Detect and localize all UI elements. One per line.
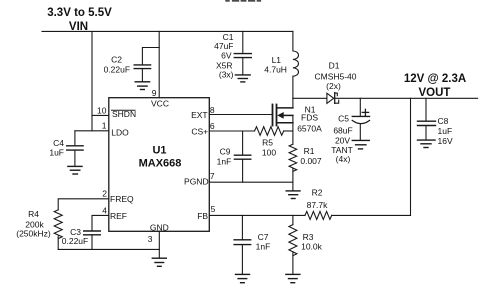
svg-text:68uF: 68uF <box>333 126 352 136</box>
transistor N1 mosfet <box>273 105 293 126</box>
wire bottom rail <box>58 248 159 250</box>
svg-text:2: 2 <box>102 188 107 198</box>
svg-text:L1: L1 <box>272 55 282 65</box>
ground PGND <box>286 191 300 199</box>
capacitor C8 wire top <box>425 98 427 121</box>
wire LDO to C4 <box>74 131 76 146</box>
svg-text:R4: R4 <box>28 209 39 219</box>
wire C1 vertical <box>242 31 244 53</box>
wire main output rail right <box>335 97 478 99</box>
wire LDO stub <box>75 130 109 132</box>
svg-text:C4: C4 <box>53 138 64 148</box>
svg-text:9: 9 <box>152 88 157 98</box>
svg-text:LDO: LDO <box>111 127 129 137</box>
svg-text:R1: R1 <box>304 146 315 156</box>
wire main output rail left <box>293 97 327 99</box>
svg-text:87.7k: 87.7k <box>307 200 329 210</box>
svg-text:R5: R5 <box>262 137 273 147</box>
capacitor C5 polarized <box>352 116 369 123</box>
svg-text:FREQ: FREQ <box>110 194 134 204</box>
resistor R5 <box>255 127 284 136</box>
svg-text:C8: C8 <box>438 116 449 126</box>
capacitor C2 <box>134 65 150 69</box>
wire R1 to PGND <box>292 168 294 182</box>
svg-text:3: 3 <box>148 234 153 244</box>
wire R3 to ground <box>292 252 294 274</box>
svg-text:PGND: PGND <box>184 176 209 186</box>
svg-text:R3: R3 <box>303 232 314 242</box>
wire C2 jog <box>142 48 159 66</box>
wire R2 to feedback vertical <box>332 214 411 216</box>
wire C8 to ground <box>425 126 427 140</box>
svg-text:100: 100 <box>262 147 276 157</box>
wire C7 to ground <box>241 245 243 275</box>
ground C2 <box>135 82 149 90</box>
svg-text:1nF: 1nF <box>256 242 271 252</box>
wire GND pin vertical <box>158 231 160 258</box>
svg-text:0.007: 0.007 <box>300 156 322 166</box>
clipped text at top edge <box>225 0 261 2</box>
svg-text:CS+: CS+ <box>191 126 208 136</box>
ground GND pin <box>152 258 166 266</box>
wire VCC vertical <box>158 31 160 97</box>
svg-text:0.22uF: 0.22uF <box>104 65 130 75</box>
wire mosfet drain vertical <box>292 98 294 108</box>
svg-text:1uF: 1uF <box>438 126 453 136</box>
wire mosfet source down to CS node and R1 <box>292 115 294 144</box>
svg-text:5: 5 <box>211 204 216 214</box>
ground C8 <box>418 140 436 147</box>
wire C3 to bottom rail <box>91 235 93 250</box>
svg-text:(3x): (3x) <box>219 70 234 80</box>
svg-text:(250kHz): (250kHz) <box>16 228 51 238</box>
wire R4 to bottom rail <box>57 236 59 249</box>
capacitor C3 <box>84 231 101 235</box>
ground C7 <box>236 274 250 282</box>
wire C5 to ground <box>359 124 361 141</box>
wire PGND lead <box>209 181 293 183</box>
svg-text:REF: REF <box>110 211 127 221</box>
svg-text:(2x): (2x) <box>326 81 341 91</box>
wire CS+ lead <box>209 130 254 132</box>
capacitor C1 <box>234 54 251 58</box>
inductor L1 <box>293 31 299 98</box>
svg-text:6: 6 <box>210 121 215 131</box>
capacitor C9 <box>234 155 250 159</box>
svg-text:12V @ 2.3A: 12V @ 2.3A <box>404 73 466 85</box>
wire VIN to SHDN/LDO vertical <box>91 31 93 130</box>
svg-text:1nF: 1nF <box>217 156 232 166</box>
svg-text:U1: U1 <box>152 144 166 156</box>
svg-text:1uF: 1uF <box>49 148 64 158</box>
capacitor C7 wire top <box>241 215 243 239</box>
wire FB lead <box>209 214 305 216</box>
resistor R4 <box>54 210 62 239</box>
svg-text:4: 4 <box>102 205 107 215</box>
wire EXT lead <box>209 114 272 116</box>
op IC U1 box <box>109 98 210 232</box>
resistor R2 <box>305 211 332 219</box>
wire C2 to ground <box>141 69 143 82</box>
resistor R3 <box>289 225 297 256</box>
svg-text:3.3V to 5.5V: 3.3V to 5.5V <box>47 7 112 19</box>
wire SHDN stub <box>92 114 109 116</box>
capacitor C7 <box>234 240 251 245</box>
wire FREQ lead <box>58 199 109 210</box>
svg-text:8: 8 <box>210 105 215 115</box>
ground C4 <box>68 166 82 174</box>
svg-text:0.22uF: 0.22uF <box>62 236 88 246</box>
capacitor C9 wire top <box>242 131 244 155</box>
svg-text:VCC: VCC <box>151 99 169 109</box>
svg-text:1: 1 <box>102 121 107 131</box>
diode D1 <box>327 93 339 104</box>
svg-text:7: 7 <box>210 171 215 181</box>
capacitor C8 <box>418 121 436 125</box>
svg-text:10: 10 <box>97 106 107 116</box>
svg-text:C5: C5 <box>338 113 349 123</box>
ground R3 <box>286 274 300 282</box>
svg-text:6V: 6V <box>221 51 232 61</box>
ground C5 <box>352 140 369 149</box>
plus sign C5 <box>362 109 368 115</box>
wire C4 to ground <box>74 150 76 166</box>
svg-text:6570A: 6570A <box>297 123 322 133</box>
wire C1 to ground <box>242 58 244 75</box>
svg-text:(4x): (4x) <box>336 154 351 164</box>
svg-text:D1: D1 <box>329 61 340 71</box>
resistor R1 <box>289 144 297 171</box>
svg-text:C9: C9 <box>220 146 231 156</box>
svg-text:FDS: FDS <box>301 112 318 122</box>
wire R5 to mosfet source node <box>284 130 293 132</box>
wire feedback vertical <box>410 98 412 215</box>
svg-text:EXT: EXT <box>191 110 208 120</box>
wire C9 bottom <box>242 159 244 182</box>
wire PGND node to ground <box>292 182 294 190</box>
wire VIN rail <box>42 30 293 32</box>
svg-text:47uF: 47uF <box>214 41 233 51</box>
svg-text:CMSH5-40: CMSH5-40 <box>314 72 356 82</box>
capacitor C5 wire top <box>359 98 361 116</box>
svg-text:VOUT: VOUT <box>419 87 451 99</box>
svg-text:R2: R2 <box>312 187 323 197</box>
capacitor C4 <box>67 146 83 150</box>
svg-text:MAX668: MAX668 <box>139 158 182 170</box>
svg-text:16V: 16V <box>438 136 453 146</box>
wire REF lead <box>92 215 109 230</box>
ground C1 <box>235 75 250 82</box>
svg-text:C7: C7 <box>258 232 269 242</box>
svg-text:10.0k: 10.0k <box>301 242 323 252</box>
wire R3 top <box>292 215 294 224</box>
svg-text:4.7uH: 4.7uH <box>264 64 287 74</box>
svg-text:C2: C2 <box>111 55 122 65</box>
svg-text:FB: FB <box>197 211 208 221</box>
